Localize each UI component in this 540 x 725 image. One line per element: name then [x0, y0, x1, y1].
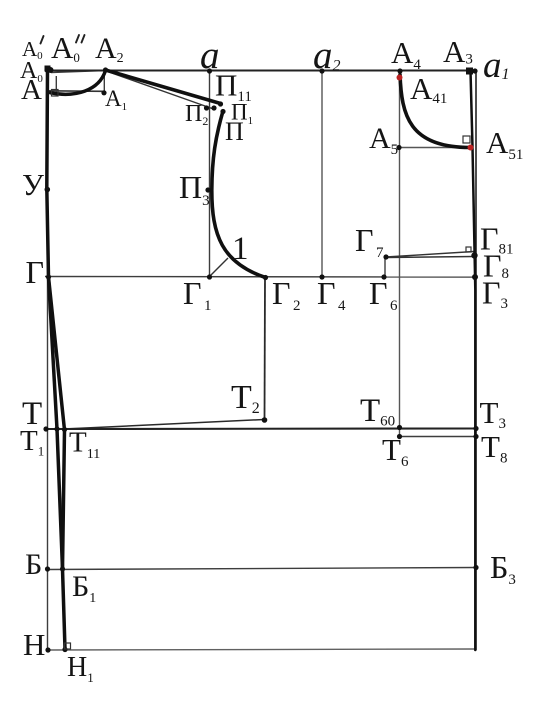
svg-text:Н: Н — [23, 627, 45, 662]
svg-text:П: П — [225, 117, 244, 146]
svg-text:Г: Г — [26, 254, 45, 290]
svg-text:А: А — [21, 74, 42, 106]
svg-text:У: У — [22, 167, 44, 202]
svg-text:Б: Б — [25, 548, 42, 581]
svg-text:1: 1 — [232, 231, 249, 267]
